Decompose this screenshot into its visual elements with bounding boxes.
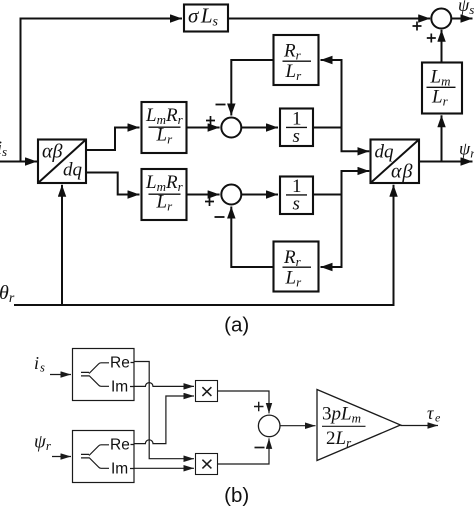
block multiplier lower [196, 454, 218, 475]
svg-text:is: is [34, 353, 45, 375]
summing junction 2 [221, 185, 241, 205]
fraction bar upper LmRr/Lr [149, 126, 181, 128]
wire: branch from psi_r line up into Lm/Lr [441, 115, 443, 161]
svg-text:(a): (a) [224, 314, 249, 337]
svg-text:Lr: Lr [285, 268, 303, 290]
wire: sigmaLs output to top summing junction [228, 18, 430, 20]
label LmRr over Lr upper [145, 105, 184, 147]
label: plus sign torque summing junction [254, 402, 264, 412]
icon: X in upper multiplier [202, 387, 211, 396]
svg-text:Lr: Lr [285, 61, 303, 83]
block ab->dq transform [38, 140, 86, 184]
svg-text:2Lr: 2Lr [326, 428, 352, 450]
fraction bar 1/s lower [286, 194, 307, 196]
diagonal of dq/ab block [371, 140, 420, 184]
wire: summing junction output psi_s [451, 18, 472, 20]
label: plus sign at top summing junction left input [413, 22, 422, 31]
wire: Rr/Lr top output down into summing junction 1 [231, 60, 273, 116]
wire: feedback tap down to Rr/Lr bottom block [321, 195, 342, 268]
svg-text:s: s [293, 126, 300, 147]
svg-text:ψs: ψs [458, 0, 474, 17]
diagonal of ab/dq block [38, 140, 86, 184]
svg-text:Im: Im [111, 461, 128, 478]
wire: upper multiplier output down into torque summing junction [218, 391, 270, 413]
wire: integrator 2 output to dq/ab input 2 [313, 171, 369, 195]
wire: ab/dq output 2 to LmRr/Lr block 2 [86, 173, 140, 195]
label 3pLm over 2Lr fraction [322, 404, 361, 451]
block Lm/Lr [422, 63, 462, 114]
svg-text:Rr: Rr [283, 41, 302, 63]
svg-text:3pLm: 3pLm [322, 404, 361, 426]
label: plus sign summing junction 1 [206, 116, 215, 125]
label: plus sign summing junction 2 [205, 197, 214, 206]
svg-text:Lm: Lm [430, 67, 451, 89]
wire: theta_r line across and up into dq/ab [14, 185, 394, 305]
svg-text:σLs: σLs [188, 4, 221, 30]
wire: i_s input into ab/dq block [0, 161, 37, 163]
block LmRr/Lr lower [142, 169, 187, 220]
icon: splitter fork symbol 1 [81, 363, 109, 387]
icon: X in lower multiplier [202, 460, 211, 469]
wire: summing junction 2 to integrator 2 [241, 194, 278, 196]
fraction bar 3pLm/2Lr [322, 425, 366, 427]
label: minus sign summing junction 2 [215, 216, 225, 218]
svg-text:θr: θr [0, 282, 15, 306]
wire: theta_r branch up into ab/dq [61, 185, 63, 305]
wire: torque summing junction to gain triangle [280, 425, 316, 427]
wire: splitter2 Re with hop up to upper multiplier [134, 396, 194, 444]
wire: LmRr/Lr upper output to summing junction 1 [187, 127, 220, 129]
wire: LmRr/Lr lower output to summing junction 2 [187, 194, 220, 196]
wire: i_s into Re/Im splitter 1 [50, 374, 71, 376]
svg-text:Re: Re [110, 437, 130, 454]
label: plus sign at top summing junction bottom input [427, 34, 436, 43]
svg-text:ψr: ψr [459, 139, 474, 161]
block Re/Im splitter 1 [73, 349, 135, 401]
wire: Re2 inner link to border [130, 445, 134, 469]
block Rr/Lr bottom [274, 242, 319, 292]
icon: splitter fork symbol 2 [81, 445, 109, 469]
block multiplier upper [196, 381, 218, 402]
block integrator 1/s lower [280, 177, 313, 215]
summing junction 1 [221, 118, 241, 138]
label 1 over s upper [292, 109, 302, 148]
label: minus sign torque summing junction [255, 447, 265, 449]
label Lm over Lr fraction [430, 67, 451, 109]
wire: gain output tau_e [401, 425, 439, 427]
wire: branch from i_s up and right to sigmaLs block [21, 19, 183, 162]
wire: Re1 inner link to border [130, 363, 134, 387]
svg-text:Lr: Lr [431, 87, 449, 109]
block integrator 1/s upper [280, 109, 313, 147]
wire: psi_r into Re/Im splitter 2 [52, 456, 71, 458]
wire: dq/ab output psi_r [419, 161, 473, 163]
svg-text:αβ: αβ [42, 141, 62, 163]
block dq->ab transform [371, 140, 420, 184]
svg-text:ψr: ψr [34, 432, 52, 454]
svg-text:Rr: Rr [283, 247, 302, 269]
label 1 over s lower [292, 176, 302, 215]
wire: ab/dq output 1 to LmRr/Lr block 1 [86, 128, 140, 151]
svg-text:Re: Re [110, 355, 130, 372]
block Re/Im splitter 2 [73, 431, 135, 483]
gain triangle 3pLm/2Lr [317, 390, 401, 461]
wire: splitter2 Im to lower multiplier [134, 467, 194, 469]
wire: lower multiplier output up into torque summing junction [218, 438, 270, 464]
summing junction top right [431, 9, 451, 29]
fraction bar 1/s upper [286, 126, 307, 128]
fraction bar lower LmRr/Lr [149, 193, 181, 195]
svg-text:dq: dq [63, 160, 83, 181]
wire: Rr/Lr bottom output up into summing junction 2 [231, 207, 273, 268]
wire: splitter1 Im to upper multiplier with hop [134, 383, 194, 387]
label LmRr over Lr lower [145, 172, 184, 214]
svg-text:τe: τe [427, 403, 442, 425]
fraction bar of Lm/Lr [427, 86, 456, 88]
block LmRr/Lr upper [142, 102, 187, 153]
svg-text:s: s [293, 194, 300, 215]
label Rr over Lr top [283, 41, 302, 84]
label: minus sign summing junction 1 [216, 104, 226, 106]
block Rr/Lr top [274, 35, 319, 85]
wire: integrator 1 output to dq/ab input 1 [313, 128, 369, 152]
svg-text:dq: dq [375, 142, 395, 163]
fraction bar Rr/Lr bottom [283, 266, 312, 268]
svg-text:(b): (b) [224, 484, 249, 507]
label Rr over Lr bottom [283, 247, 302, 290]
svg-text:αβ: αβ [391, 161, 413, 183]
wire: feedback tap up to Rr/Lr top block [321, 60, 342, 128]
wire: splitter1 Re down to lower multiplier [134, 362, 194, 459]
block sigma*Ls [184, 5, 228, 32]
wire: Lm/Lr output up into top summing junction [441, 30, 443, 63]
fraction bar Rr/Lr top [283, 60, 312, 62]
svg-text:is: is [0, 138, 7, 160]
summing junction torque [258, 415, 280, 437]
svg-text:Im: Im [111, 379, 128, 396]
wire: summing junction 1 to integrator 1 [241, 127, 278, 129]
